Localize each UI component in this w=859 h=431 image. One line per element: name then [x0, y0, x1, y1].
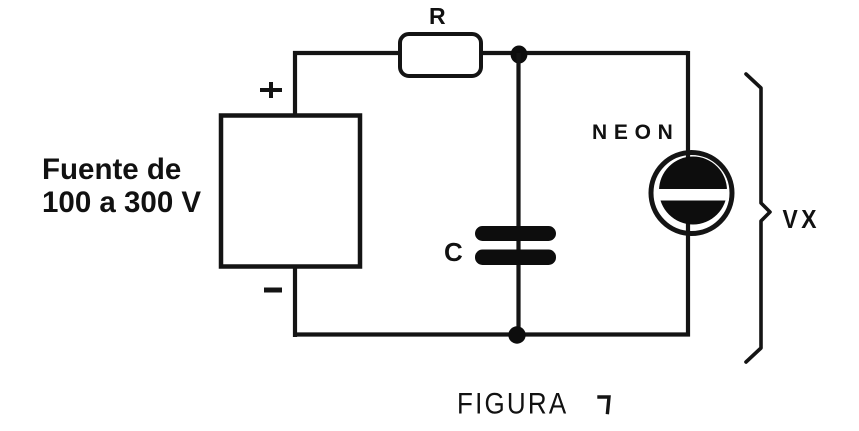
resistor R	[400, 34, 481, 76]
label R	[429, 3, 446, 29]
caption FIGURA	[457, 387, 568, 420]
wire right vertical (neon branch)	[686, 51, 690, 337]
wire top rail	[293, 51, 688, 55]
svg-text:FIGURA: FIGURA	[457, 387, 568, 420]
wire middle vertical (capacitor branch)	[516, 53, 520, 335]
wire bottom rail	[293, 332, 690, 336]
wire left vertical (source - to bottom rail)	[293, 267, 297, 337]
wire left vertical (source + to top rail)	[293, 51, 297, 116]
capacitor C plate bottom	[475, 250, 556, 266]
neon lamp electrodes	[657, 157, 729, 225]
caption figure number 7	[599, 397, 609, 413]
node junction dot top	[511, 46, 528, 64]
label C	[444, 237, 463, 267]
plus polarity symbol	[260, 82, 282, 98]
svg-text:VX: VX	[783, 206, 821, 235]
svg-text:NEON: NEON	[592, 121, 679, 144]
label VX	[783, 206, 821, 235]
svg-text:R: R	[429, 3, 446, 29]
label Fuente de 100 a 300 V	[42, 153, 201, 219]
neon lamp envelope	[651, 153, 732, 234]
label NEON	[592, 121, 679, 144]
brace VX measurement bracket	[746, 74, 770, 362]
battery source B1	[221, 116, 360, 267]
minus polarity symbol	[264, 288, 282, 293]
svg-text:Fuente de: Fuente de	[42, 153, 181, 186]
svg-text:C: C	[444, 237, 463, 267]
capacitor C plate top	[475, 226, 556, 241]
node junction dot bottom	[508, 326, 525, 343]
svg-text:100 a 300 V: 100 a 300 V	[42, 186, 201, 219]
